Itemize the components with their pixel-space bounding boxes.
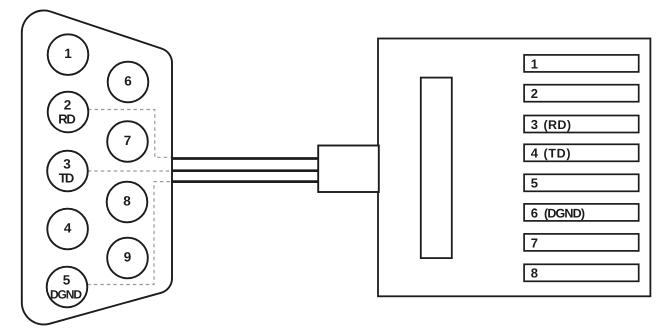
svg-text:DGND: DGND [50,287,82,301]
pin 8 [107,182,148,223]
svg-text:8: 8 [123,194,131,209]
pin row 4 TD [524,144,639,161]
pin row 7 [524,234,639,251]
svg-text:(RD): (RD) [544,118,572,132]
pin 6 [108,62,149,103]
svg-text:7: 7 [531,235,538,250]
svg-text:8: 8 [531,266,538,281]
pin 1 [48,34,89,75]
pin 2 RD [48,92,89,133]
dashed route pin5 DGND to bottom wire [87,182,171,285]
svg-text:(TD): (TD) [544,147,571,161]
connector slot [421,78,452,259]
wire RD [172,157,319,160]
pin 9 [107,238,148,279]
svg-text:4: 4 [64,221,72,236]
svg-text:4: 4 [531,146,539,161]
pin row 1 [524,55,639,72]
pin 7 [107,121,148,162]
dashed route pin3 TD to middle wire [88,170,171,172]
pin 3 TD [47,151,88,192]
wire TD [172,169,319,172]
wire DGND [172,180,319,183]
DB9 connector body [22,10,172,324]
pin row 6 DGND [524,204,639,221]
svg-text:9: 9 [124,250,132,265]
dashed route pin2 RD to top wire [88,110,171,158]
svg-text:1: 1 [531,56,538,71]
pin row 8 [524,264,639,281]
svg-text:7: 7 [124,133,132,148]
svg-text:6: 6 [124,74,132,89]
svg-text:5: 5 [63,273,71,288]
svg-text:TD: TD [59,170,75,185]
svg-text:2: 2 [531,86,538,101]
svg-text:6: 6 [531,205,538,220]
svg-text:1: 1 [64,46,72,61]
svg-text:5: 5 [531,176,538,191]
pin 5 DGND [47,267,88,308]
pin row 2 [524,85,639,102]
svg-text:(DGND): (DGND) [544,206,585,220]
pin row 3 RD [524,116,639,133]
svg-text:3: 3 [531,117,538,132]
svg-text:RD: RD [58,111,76,126]
modular connector body [378,39,650,297]
pin 4 [47,209,88,250]
cable plug [318,146,379,193]
pin row 5 [524,174,639,191]
